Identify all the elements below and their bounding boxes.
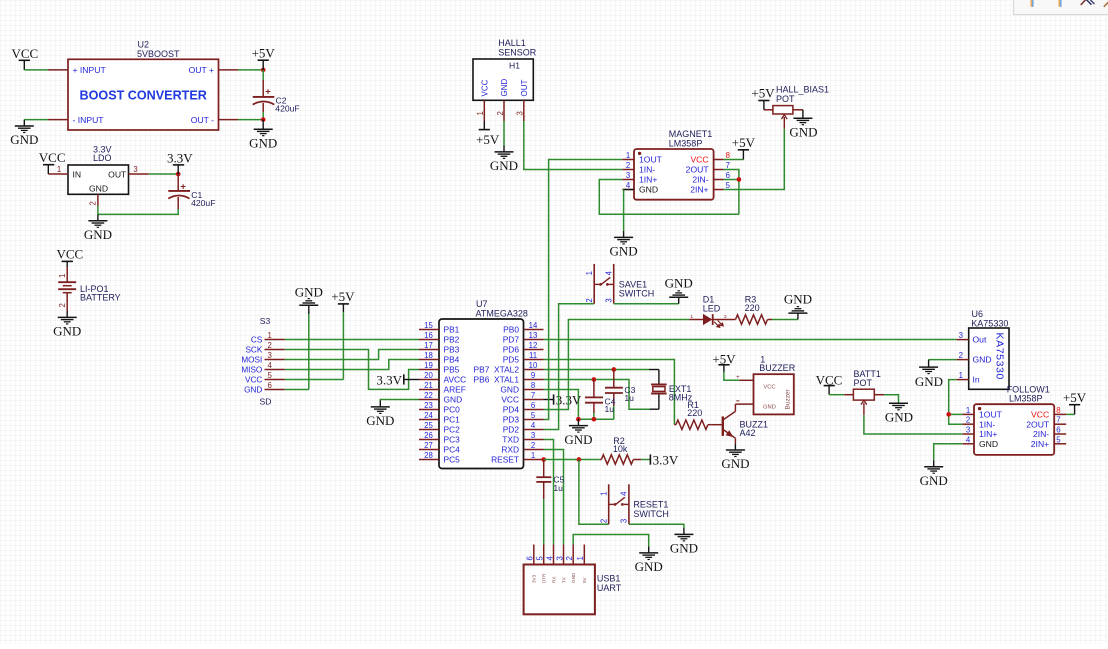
svg-text:MOSI: MOSI — [241, 355, 262, 364]
svg-text:H1: H1 — [509, 60, 520, 70]
node XTAL1/C4 — [592, 377, 597, 382]
svg-text:1u: 1u — [605, 404, 615, 414]
svg-text:PB4: PB4 — [444, 355, 460, 365]
svg-text:11: 11 — [529, 351, 537, 360]
svg-text:4: 4 — [620, 491, 629, 496]
pin 10 U7 — [524, 369, 544, 371]
svg-text:PB0: PB0 — [503, 325, 519, 335]
svg-text:SWITCH: SWITCH — [619, 289, 655, 299]
svg-text:1OUT: 1OUT — [639, 155, 663, 165]
svg-text:GND: GND — [84, 227, 112, 242]
pin 7 U7 — [524, 399, 544, 401]
svg-text:6: 6 — [526, 556, 535, 560]
pin 6 USB1 3V3 — [533, 545, 535, 565]
toolbar icon 2 — [1058, 0, 1060, 7]
svg-text:GND: GND — [366, 413, 394, 428]
capacitor C4 1u — [593, 380, 595, 397]
svg-text:SCK: SCK — [245, 345, 262, 354]
svg-text:4: 4 — [605, 270, 614, 275]
pin +INPUT handled above ; pin -INPUT wire — [48, 119, 68, 121]
pin 3 U6 Out — [957, 339, 969, 341]
node XTAL2/C3 — [611, 367, 616, 372]
svg-text:5: 5 — [531, 411, 536, 420]
svg-text:PD4: PD4 — [503, 405, 520, 415]
wire TXD to USB pin4 — [544, 440, 554, 545]
svg-text:LM358P: LM358P — [1009, 394, 1043, 404]
svg-text:MISO: MISO — [241, 365, 262, 374]
pin 1 USB1 5V — [583, 545, 585, 565]
svg-text:2IN-: 2IN- — [1033, 429, 1049, 439]
svg-text:GND: GND — [784, 291, 812, 306]
svg-text:+5V: +5V — [751, 86, 775, 101]
svg-text:GND: GND — [789, 125, 817, 140]
svg-text:S3: S3 — [260, 316, 271, 326]
svg-text:KA75330: KA75330 — [994, 333, 1006, 380]
svg-text:27: 27 — [424, 441, 433, 450]
svg-text:GND: GND — [763, 404, 776, 410]
wire MAGNET1 VCC pin8 — [724, 159, 744, 161]
pin 6 FOLLOW1 — [1054, 433, 1066, 435]
svg-text:VCC: VCC — [12, 46, 39, 61]
svg-text:1u: 1u — [553, 483, 563, 493]
pin 2 USB1 GND — [572, 545, 574, 565]
pin 2 U6 GND — [957, 359, 969, 361]
svg-text:RESET: RESET — [491, 455, 519, 465]
svg-text:4: 4 — [531, 421, 536, 430]
svg-text:VCC: VCC — [39, 150, 66, 165]
svg-text:2: 2 — [531, 441, 535, 450]
svg-text:3: 3 — [605, 298, 614, 302]
wire MAGNET1 2OUT loop — [724, 170, 739, 215]
ground flag above SAVE1 wire — [678, 298, 680, 304]
svg-text:PD3: PD3 — [503, 415, 520, 425]
net flag +5V (FOLLOW1) — [1074, 405, 1076, 415]
net flag +5V (C2) — [262, 60, 264, 70]
node C2 bottom — [261, 117, 266, 122]
ground flag above R3 — [797, 313, 799, 319]
pin 4 USB1 RX — [553, 545, 555, 565]
svg-text:A42: A42 — [740, 428, 756, 438]
pin 8 FOLLOW1 — [1054, 413, 1066, 415]
pin 17 U7 PB3 — [419, 349, 439, 351]
net flag +5V (MAGNET1) — [742, 150, 744, 160]
svg-text:PB2: PB2 — [444, 335, 460, 345]
svg-text:GND: GND — [500, 385, 519, 395]
svg-text:PB6 XTAL1: PB6 XTAL1 — [474, 375, 520, 385]
svg-text:1: 1 — [268, 331, 272, 340]
svg-text:2: 2 — [89, 201, 98, 205]
svg-text:1u: 1u — [624, 393, 634, 403]
node RESET/C5 — [541, 457, 546, 462]
ground below BATT1 — [898, 402, 900, 404]
wire S3 GND — [285, 389, 309, 391]
pin 4 U7 — [524, 429, 544, 431]
svg-text:VCC: VCC — [57, 247, 84, 262]
svg-text:8: 8 — [726, 151, 730, 160]
svg-text:VCC: VCC — [501, 395, 519, 405]
svg-text:DTR: DTR — [542, 573, 547, 583]
pin 1 LDO — [48, 173, 68, 175]
svg-text:ATMEGA328: ATMEGA328 — [476, 309, 528, 319]
svg-text:PC5: PC5 — [444, 455, 461, 465]
svg-text:GND: GND — [490, 158, 518, 173]
svg-text:In: In — [973, 375, 980, 385]
svg-text:1: 1 — [599, 492, 608, 496]
wire MAGNET1 1IN+ loop — [599, 180, 739, 215]
svg-text:5: 5 — [268, 371, 273, 380]
pin OUT- wire — [219, 119, 239, 121]
svg-text:GND: GND — [979, 439, 998, 449]
svg-text:8: 8 — [531, 381, 535, 390]
svg-text:Out: Out — [973, 335, 987, 345]
diode D1 LED — [689, 319, 703, 321]
svg-text:1: 1 — [58, 274, 67, 278]
svg-text:VCC: VCC — [763, 384, 775, 390]
capacitor C1 420uF — [177, 174, 179, 190]
svg-text:VCC: VCC — [690, 155, 708, 165]
svg-text:GND: GND — [915, 374, 943, 389]
svg-text:1: 1 — [959, 371, 963, 380]
svg-text:8: 8 — [1056, 406, 1060, 415]
pin 7 FOLLOW1 — [1054, 423, 1066, 425]
svg-text:9: 9 — [531, 371, 535, 380]
buzzer - pin — [735, 403, 753, 405]
toolbar icon 4 — [1104, 2, 1108, 7]
pin 5 USB1 DTR — [543, 545, 545, 565]
pin 16 U7 PB2 — [419, 339, 439, 341]
svg-text:6: 6 — [268, 381, 272, 390]
svg-text:3.3V: 3.3V — [376, 372, 402, 387]
pin 5 U7 — [524, 419, 544, 421]
svg-text:2: 2 — [58, 303, 67, 307]
svg-text:GND: GND — [665, 276, 693, 291]
pin 3 U7 — [524, 439, 544, 441]
toolbar icon 1 — [1030, 0, 1032, 7]
svg-text:PD2: PD2 — [503, 425, 520, 435]
wire BATT1 wiper to FOLLOW1 1IN+ — [864, 415, 962, 434]
pin 21 U7 AREF — [419, 389, 439, 391]
svg-text:21: 21 — [424, 381, 433, 390]
svg-text:OUT +: OUT + — [189, 65, 214, 75]
wire U6 GND to ground — [929, 359, 957, 361]
wire U7 GND(8) to ground rail — [544, 390, 614, 420]
resistor R1 220 — [676, 420, 708, 429]
svg-text:Buzzer: Buzzer — [785, 388, 792, 409]
svg-text:U6: U6 — [972, 309, 984, 319]
pin 6 U7 — [524, 409, 544, 411]
svg-text:SENSOR: SENSOR — [498, 47, 537, 57]
svg-text:20: 20 — [424, 371, 433, 380]
svg-text:UART: UART — [597, 583, 622, 593]
svg-text:4: 4 — [966, 435, 971, 444]
ground below C2 — [262, 120, 264, 123]
svg-text:2: 2 — [959, 351, 963, 360]
svg-text:+5V: +5V — [476, 132, 500, 147]
svg-text:16: 16 — [424, 331, 433, 340]
svg-text:GND: GND — [89, 184, 108, 194]
pin 20 U7 AVCC — [419, 379, 439, 381]
svg-text:PC1: PC1 — [444, 415, 461, 425]
svg-text:1IN-: 1IN- — [639, 165, 655, 175]
svg-text:4: 4 — [626, 181, 631, 190]
svg-text:2IN-: 2IN- — [692, 175, 708, 185]
svg-text:2: 2 — [599, 519, 608, 523]
wire MAGNET1 GND pin4 — [624, 189, 634, 191]
svg-text:LDO: LDO — [93, 153, 112, 163]
ground below -INPUT — [23, 120, 25, 126]
capacitor C2 420uF — [262, 70, 264, 80]
pin 23 U7 PC0 — [419, 409, 439, 411]
svg-text:2: 2 — [626, 161, 630, 170]
battery LI-PO1 — [66, 267, 68, 282]
svg-text:GND: GND — [973, 355, 992, 365]
svg-text:OUT: OUT — [108, 169, 127, 179]
svg-text:BUZZER: BUZZER — [759, 363, 796, 373]
transistor BUZZ1 A42 — [722, 416, 724, 436]
svg-text:18: 18 — [424, 351, 433, 360]
svg-text:PB3: PB3 — [444, 345, 460, 355]
svg-text:2IN+: 2IN+ — [690, 185, 708, 195]
svg-text:2: 2 — [966, 416, 970, 425]
svg-text:24: 24 — [424, 411, 433, 420]
svg-text:POT: POT — [854, 378, 873, 388]
wire S3 VCC — [285, 379, 344, 381]
node In/1OUT/1IN- — [946, 412, 951, 417]
ground at U7 pin22 — [379, 401, 381, 407]
svg-text:GND: GND — [885, 410, 913, 425]
svg-text:+5V: +5V — [732, 135, 756, 150]
pin 6 MAGNET1 — [714, 179, 724, 181]
pin 8 MAGNET1 — [714, 159, 724, 161]
svg-text:+5V: +5V — [331, 289, 355, 304]
wire SCK to PB5 — [285, 350, 419, 390]
pin 1 MAGNET1 — [622, 159, 634, 161]
svg-text:5: 5 — [726, 181, 731, 190]
svg-text:GND: GND — [610, 244, 638, 259]
wire PD2 to SAVE1 pin2 — [544, 304, 595, 430]
svg-text:GND: GND — [500, 79, 509, 97]
svg-text:SD: SD — [260, 397, 272, 407]
pin 24 U7 PC1 — [419, 419, 439, 421]
svg-text:GND: GND — [444, 395, 463, 405]
svg-text:3: 3 — [268, 351, 272, 360]
IC U2 5VBOOST boost converter — [68, 59, 219, 130]
pin 14 U7 — [524, 329, 544, 331]
svg-text:5V: 5V — [582, 576, 587, 583]
svg-text:TX: TX — [561, 577, 566, 583]
svg-text:3: 3 — [531, 431, 535, 440]
pin 27 U7 PC4 — [419, 449, 439, 451]
wire FOLLOW1 pin8 to +5V — [1066, 413, 1074, 415]
ground on MAGNET1 loop net — [623, 214, 625, 231]
svg-text:7: 7 — [726, 161, 730, 170]
svg-text:3: 3 — [626, 171, 630, 180]
pin OUT+ wire — [219, 69, 239, 71]
svg-text:10: 10 — [529, 361, 538, 370]
svg-text:GND: GND — [53, 324, 81, 339]
svg-text:RXD: RXD — [501, 445, 519, 455]
wire +5V flag to S3 pin5 — [342, 312, 344, 380]
svg-text:GND: GND — [564, 432, 592, 447]
pin 2 MAGNET1 — [622, 169, 634, 171]
svg-text:1: 1 — [690, 314, 693, 320]
svg-text:1: 1 — [576, 556, 585, 560]
svg-text:1OUT: 1OUT — [979, 410, 1003, 420]
svg-text:17: 17 — [424, 341, 433, 350]
pin 3 MAGNET1 — [622, 179, 634, 181]
ground below LDO — [97, 214, 99, 220]
svg-text:2: 2 — [724, 314, 727, 320]
svg-text:6: 6 — [531, 401, 535, 410]
pin 1 FOLLOW1 — [962, 413, 974, 415]
ground below BUZZ1 — [734, 444, 736, 450]
svg-text:22: 22 — [424, 391, 433, 400]
pin 8 U7 — [524, 389, 544, 391]
svg-text:+5V: +5V — [252, 45, 276, 60]
svg-text:26: 26 — [424, 431, 433, 440]
svg-text:BOOST CONVERTER: BOOST CONVERTER — [80, 89, 207, 103]
svg-text:GND: GND — [670, 541, 698, 556]
wire junction to pin1 — [949, 413, 963, 415]
node 2IN-/2OUT — [737, 177, 742, 182]
pin 25 U7 PC2 — [419, 429, 439, 431]
pot right to ground — [793, 109, 803, 111]
wire SAVE1 pin3 to GND — [614, 303, 679, 305]
svg-text:1IN+: 1IN+ — [979, 429, 997, 439]
svg-text:5VBOOST: 5VBOOST — [137, 49, 180, 59]
wire PD7 to U6 Out (long) — [544, 339, 957, 341]
pin 3 LDO — [129, 173, 149, 175]
svg-text:AREF: AREF — [444, 385, 466, 395]
svg-text:19: 19 — [424, 361, 433, 370]
toolbar icon 3 — [1081, 0, 1087, 5]
svg-text:VCC: VCC — [481, 79, 490, 96]
svg-text:GND: GND — [571, 572, 576, 583]
svg-text:GND: GND — [920, 473, 948, 488]
wire USB pin2 to GND — [573, 535, 649, 547]
svg-text:220: 220 — [687, 408, 702, 418]
svg-text:+ INPUT: + INPUT — [73, 65, 107, 75]
pin 3 FOLLOW1 — [962, 433, 974, 435]
svg-text:KA75330: KA75330 — [971, 318, 1008, 328]
resistor R3 220 — [727, 319, 736, 321]
svg-text:PC0: PC0 — [444, 405, 461, 415]
pin 7 MAGNET1 — [714, 169, 724, 171]
pin 19 U7 PB5 — [419, 369, 439, 371]
svg-text:LM358P: LM358P — [669, 138, 703, 148]
svg-text:5: 5 — [1056, 435, 1061, 444]
ground below FOLLOW1 — [933, 460, 935, 466]
svg-text:PB7 XTAL2: PB7 XTAL2 — [474, 365, 520, 375]
wire U6 In to FOLLOW1 — [949, 380, 963, 425]
svg-text:1: 1 — [57, 165, 61, 174]
svg-text:13: 13 — [529, 331, 538, 340]
svg-text:3V3: 3V3 — [532, 574, 537, 583]
svg-text:+5V: +5V — [1063, 390, 1087, 405]
switch RESET1 — [608, 484, 610, 524]
svg-text:220: 220 — [745, 303, 760, 313]
wire MISO to PB4 — [285, 360, 419, 370]
node +5V/C2 top — [261, 68, 266, 73]
net flag +5V (pot left) — [758, 100, 769, 102]
svg-text:2OUT: 2OUT — [686, 165, 710, 175]
wire H1 pin2 to ground — [503, 121, 505, 146]
wire RESET1 pin3 to GND — [629, 524, 684, 528]
toolbar panel (partial, top-right) — [1014, 0, 1108, 15]
wire MAGNET1 2IN+ to pot wiper — [724, 129, 785, 190]
ground below C4 rail — [577, 419, 579, 425]
crystal EXT1 8MHz — [651, 384, 667, 386]
pin 4 MAGNET1 — [622, 189, 634, 191]
wire H1 OUT to MAGNET1 1IN- — [524, 121, 623, 170]
wire +5V to buzzer + pin — [724, 372, 740, 380]
wire VCC to U2 +INPUT — [24, 69, 48, 71]
wire PD4 to LED D1 — [544, 320, 690, 410]
svg-text:CS: CS — [251, 335, 263, 344]
node gnd rail C4 — [592, 417, 597, 422]
wire RESET row — [544, 459, 600, 461]
svg-text:PC4: PC4 — [444, 445, 461, 455]
resistor R2 10k — [601, 455, 633, 464]
node RESET/R2/switch — [577, 457, 582, 462]
svg-text:RX: RX — [551, 577, 556, 583]
net port 3.3V at VCC(7) — [544, 399, 554, 401]
svg-text:2: 2 — [585, 298, 594, 302]
svg-text:PD5: PD5 — [503, 355, 520, 365]
svg-text:OUT -: OUT - — [191, 115, 214, 125]
svg-text:25: 25 — [424, 421, 433, 430]
svg-text:BATTERY: BATTERY — [80, 293, 121, 303]
svg-text:1IN-: 1IN- — [979, 419, 995, 429]
svg-text:PB5: PB5 — [444, 365, 460, 375]
pin 28 U7 PC5 — [419, 459, 439, 461]
net port 3.3V at R2 — [649, 454, 651, 464]
svg-text:PD6: PD6 — [503, 345, 520, 355]
svg-text:14: 14 — [529, 321, 538, 330]
svg-text:OUT: OUT — [520, 80, 529, 97]
svg-text:3: 3 — [959, 331, 963, 340]
svg-text:IN: IN — [73, 169, 82, 179]
pin 18 U7 PB4 — [419, 359, 439, 361]
svg-text:3: 3 — [133, 165, 137, 174]
pin 13 U7 — [524, 339, 544, 341]
wire XTAL1 to C4/EXT1 — [544, 380, 651, 410]
svg-text:VCC: VCC — [1031, 410, 1049, 420]
svg-text:3: 3 — [620, 519, 629, 523]
svg-text:2OUT: 2OUT — [1026, 419, 1050, 429]
wire PD5 to R1 — [544, 360, 675, 425]
svg-text:7: 7 — [531, 391, 535, 400]
svg-text:PC2: PC2 — [444, 425, 461, 435]
pin 22 U7 GND — [419, 399, 439, 401]
svg-text:PB1: PB1 — [444, 325, 460, 335]
svg-text:3.3V: 3.3V — [653, 452, 679, 467]
BATT1 wiper arrow — [861, 400, 867, 404]
pin 9 U7 — [524, 379, 544, 381]
wire FOLLOW1 GND pin4 — [934, 444, 963, 461]
svg-text:7: 7 — [1056, 416, 1060, 425]
net flag +5V below H1 pin1 (inverted) — [483, 121, 485, 130]
pin 1 U6 In — [957, 379, 969, 381]
svg-text:15: 15 — [424, 321, 433, 330]
pin 15 U7 PB1 — [419, 329, 439, 331]
svg-text:- INPUT: - INPUT — [73, 115, 105, 125]
svg-text:1IN+: 1IN+ — [639, 175, 657, 185]
svg-text:3: 3 — [966, 426, 970, 435]
svg-text:GND: GND — [244, 385, 262, 394]
svg-text:23: 23 — [424, 401, 433, 410]
node gnd rail left — [576, 417, 581, 422]
